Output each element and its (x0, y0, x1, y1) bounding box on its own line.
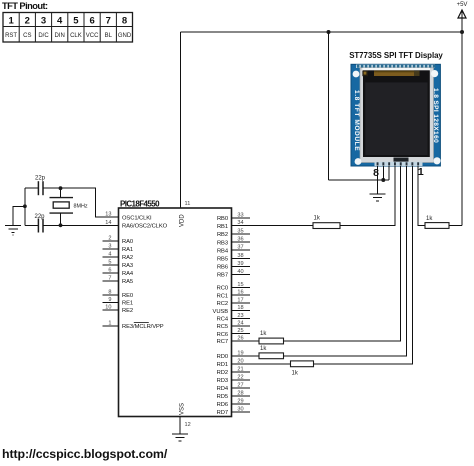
TFT module U2 PCB (351, 64, 441, 166)
pin 20 RD1 (217, 358, 250, 368)
svg-text:6: 6 (108, 267, 111, 273)
svg-text:2: 2 (25, 16, 30, 27)
svg-text:RB2: RB2 (217, 232, 228, 238)
wire TFT supply drop (328, 32, 330, 180)
pin 8 RE0 (103, 289, 134, 299)
svg-text:RD7: RD7 (217, 410, 228, 416)
svg-text:CS: CS (23, 33, 31, 39)
pin 19 RD0 (217, 350, 250, 360)
capacitor C1 22p (25, 176, 61, 196)
svg-text:22: 22 (237, 374, 243, 380)
wire TFT pin 8 to ground (377, 166, 379, 194)
svg-text:2: 2 (108, 235, 111, 241)
svg-text:RD0: RD0 (217, 354, 228, 360)
svg-text:RA4: RA4 (122, 271, 134, 277)
pin 33 RB0 (217, 213, 250, 223)
ground symbol TFT (369, 194, 385, 201)
svg-text:PIC18F4550: PIC18F4550 (120, 199, 160, 208)
svg-text:VCC: VCC (86, 33, 99, 39)
pin 35 RB2 (217, 229, 250, 239)
svg-text:38: 38 (237, 253, 243, 259)
svg-text:RA2: RA2 (122, 255, 133, 261)
svg-text:8: 8 (108, 289, 111, 295)
pin 11 VDD label (180, 201, 191, 227)
svg-text:D/C: D/C (38, 33, 49, 39)
svg-text:35: 35 (237, 229, 243, 235)
svg-text:RA6/OSC2/CLKO: RA6/OSC2/CLKO (122, 224, 168, 230)
svg-text:TFT Pinout:: TFT Pinout: (2, 1, 48, 11)
wire RB1 to R1 (248, 225, 313, 227)
pin 40 RB7 (217, 269, 250, 279)
svg-text:14: 14 (105, 220, 111, 226)
svg-text:22p: 22p (35, 176, 46, 182)
pin 4 RA2 (103, 251, 134, 261)
pin 12 VSS (180, 403, 191, 434)
svg-text:39: 39 (237, 261, 243, 267)
svg-text:27: 27 (237, 382, 243, 388)
svg-text:1: 1 (418, 166, 424, 178)
svg-text:26: 26 (237, 336, 243, 342)
svg-text:RC5: RC5 (217, 324, 228, 330)
wire R2 to TFT pin 4 (284, 166, 401, 341)
wire RD1 to R4 (248, 363, 291, 365)
svg-text:RC6: RC6 (217, 332, 228, 338)
PIC18F4550 title (120, 199, 160, 208)
svg-text:34: 34 (237, 220, 243, 226)
wire TFT pin 1 to R5 (418, 166, 425, 226)
svg-text:21: 21 (237, 366, 243, 372)
pin 13 OSC1/CLKI (103, 212, 153, 222)
svg-text:1.8 SPI 128X160: 1.8 SPI 128X160 (432, 88, 439, 143)
svg-text:1k: 1k (292, 371, 299, 377)
TFT pinout table (3, 13, 133, 43)
svg-text:16: 16 (237, 290, 243, 296)
wire R1 to TFT pin 5 (340, 166, 395, 226)
svg-text:RB1: RB1 (217, 224, 228, 230)
capacitor C2 22p (25, 214, 61, 233)
svg-text:4: 4 (108, 251, 111, 257)
svg-text:1k: 1k (260, 346, 267, 352)
svg-text:20: 20 (237, 358, 243, 364)
wire VDD drop to pin 11 (180, 32, 182, 208)
pin 28 RD5 (217, 390, 250, 400)
ground symbol at VSS (172, 434, 188, 441)
pin 7 RA5 (103, 275, 134, 285)
svg-text:11: 11 (185, 201, 191, 207)
svg-text:RE1: RE1 (122, 301, 133, 307)
pin 5 RA3 (103, 259, 134, 269)
svg-text:5: 5 (108, 259, 111, 265)
svg-text:8: 8 (373, 167, 379, 179)
TFT Pinout title (2, 1, 48, 11)
svg-text:5: 5 (73, 16, 79, 27)
svg-text:VUSB: VUSB (213, 309, 229, 315)
svg-text:RB6: RB6 (217, 265, 228, 271)
TFT display heading (349, 51, 443, 60)
svg-text:GND: GND (118, 33, 132, 39)
crystal X1 8MHz (50, 188, 88, 225)
pin 27 RD4 (217, 382, 250, 392)
svg-text:RC2: RC2 (217, 301, 228, 307)
svg-text:VDD: VDD (180, 214, 186, 227)
svg-text:RST: RST (5, 33, 17, 39)
svg-text:1: 1 (8, 16, 14, 27)
pin 30 RD7 (217, 406, 250, 416)
wire +5V top rail (181, 31, 463, 33)
svg-text:18: 18 (237, 305, 243, 311)
pin 6 RA4 (103, 267, 134, 277)
svg-text:RE0: RE0 (122, 293, 133, 299)
wire TFT pin 6 drop (388, 166, 390, 180)
resistor R4 1k (291, 361, 314, 377)
svg-text:OSC1/CLKI: OSC1/CLKI (122, 215, 152, 221)
svg-text:RA5: RA5 (122, 279, 133, 285)
svg-text:37: 37 (237, 245, 243, 251)
svg-text:6: 6 (89, 16, 94, 27)
svg-text:3: 3 (108, 243, 111, 249)
svg-text:RD1: RD1 (217, 362, 228, 368)
svg-text:17: 17 (237, 297, 243, 303)
wire RD0 to R3 (248, 355, 259, 357)
svg-text:1k: 1k (314, 216, 321, 222)
svg-text:RD5: RD5 (217, 394, 228, 400)
svg-text:9: 9 (108, 297, 111, 303)
wire R5 to +5V rail (449, 225, 462, 227)
svg-text:VSS: VSS (180, 403, 186, 415)
pin 25 RC6 (217, 328, 250, 338)
svg-text:+5V: +5V (457, 2, 468, 8)
resistor R3 1k (259, 346, 284, 359)
wire +5V right drop to R5 (461, 32, 463, 226)
pin 16 RC1 (217, 290, 250, 300)
svg-text:7: 7 (106, 16, 111, 27)
wire OSC2 to pin 14 (61, 224, 103, 226)
svg-text:DIN: DIN (55, 33, 65, 39)
svg-text:RE3/MCLR/VPP: RE3/MCLR/VPP (122, 324, 164, 330)
+5V power symbol (457, 2, 468, 32)
svg-text:12: 12 (185, 422, 191, 428)
pin 23 RC4 (217, 313, 250, 323)
pin 38 RB5 (217, 253, 250, 263)
svg-text:CLK: CLK (70, 33, 82, 39)
svg-text:RD2: RD2 (217, 370, 228, 376)
svg-text:8MHz: 8MHz (74, 204, 88, 210)
svg-text:40: 40 (237, 269, 243, 275)
wire RC7 to R2 (248, 340, 259, 342)
pin 10 RE2 (103, 304, 134, 314)
resistor R2 1k (259, 331, 284, 344)
pin 2 RA0 (103, 235, 134, 245)
node cap rail junction (23, 204, 27, 208)
wire R3 to TFT pin 3 (284, 166, 407, 356)
svg-text:http://ccspicc.blogspot.com/: http://ccspicc.blogspot.com/ (2, 447, 168, 461)
IC U1 PIC18F4550 body (119, 208, 232, 417)
node junction top rail / TFT feed (327, 30, 331, 34)
wire TFT supply horizontal to pins 7,6 (329, 179, 390, 181)
pin 22 RD3 (217, 374, 250, 384)
pin 17 RC2 (217, 297, 250, 307)
svg-text:19: 19 (237, 350, 243, 356)
resistor R1 1k (313, 216, 340, 229)
pin 18 VUSB (213, 305, 250, 315)
TFT pin 1 label (418, 166, 424, 178)
svg-text:7: 7 (108, 275, 111, 281)
svg-text:25: 25 (237, 328, 243, 334)
wire capacitor common rail (24, 188, 26, 225)
svg-text:23: 23 (237, 313, 243, 319)
pin 24 RC5 (217, 321, 250, 331)
svg-text:RC4: RC4 (217, 317, 229, 323)
pin 34 RB1 (217, 220, 250, 230)
TFT pin 8 label (373, 167, 379, 179)
svg-text:RA3: RA3 (122, 263, 133, 269)
svg-text:RA0: RA0 (122, 239, 133, 245)
pin 39 RB6 (217, 261, 250, 271)
svg-text:1k: 1k (260, 331, 267, 337)
svg-text:33: 33 (237, 213, 243, 219)
svg-text:RC7: RC7 (217, 339, 228, 345)
svg-text:1: 1 (108, 320, 111, 326)
svg-text:RE2: RE2 (122, 308, 133, 314)
pin 15 RC0 (217, 282, 250, 292)
resistor R5 1k (425, 216, 449, 228)
wire TFT pin 7 drop (382, 166, 384, 180)
pin 1 RE3/MCLR/VPP (103, 320, 164, 330)
svg-text:24: 24 (237, 321, 243, 327)
svg-text:RB4: RB4 (217, 248, 229, 254)
svg-text:BL: BL (105, 33, 113, 39)
pin 14 RA6/OSC2/CLKO (103, 220, 168, 230)
svg-text:RD4: RD4 (217, 386, 229, 392)
svg-text:30: 30 (237, 406, 243, 412)
node junction at TFT pin 7 (381, 178, 385, 182)
svg-text:4: 4 (57, 16, 63, 27)
wire R4 to TFT pin 2 (314, 166, 413, 364)
URL footer (2, 447, 168, 461)
svg-text:8: 8 (122, 16, 127, 27)
svg-text:RC1: RC1 (217, 293, 228, 299)
node crystal top junction (59, 186, 63, 190)
svg-text:RA1: RA1 (122, 247, 133, 253)
svg-text:RB7: RB7 (217, 273, 228, 279)
svg-text:RB5: RB5 (217, 257, 228, 263)
pin 3 RA1 (103, 243, 134, 253)
node crystal bottom junction (59, 223, 63, 227)
pin 37 RB4 (217, 245, 250, 255)
svg-text:ST7735S SPI TFT Display: ST7735S SPI TFT Display (349, 51, 443, 60)
wire OSC1 to pin 13 (61, 188, 103, 217)
svg-text:36: 36 (237, 237, 243, 243)
svg-text:RD3: RD3 (217, 378, 228, 384)
node junction top rail right (460, 30, 464, 34)
svg-text:13: 13 (105, 212, 111, 218)
pin 29 RD6 (217, 398, 250, 408)
svg-text:RB0: RB0 (217, 216, 228, 222)
svg-text:RB3: RB3 (217, 240, 228, 246)
pin 21 RD2 (217, 366, 250, 376)
svg-text:3: 3 (41, 16, 46, 27)
svg-text:15: 15 (237, 282, 243, 288)
pin 26 RC7 (217, 336, 250, 346)
svg-text:1.8 TFT MODULE: 1.8 TFT MODULE (353, 90, 360, 151)
wire to crystal ground (13, 206, 25, 225)
svg-text:29: 29 (237, 398, 243, 404)
svg-text:1k: 1k (426, 216, 433, 222)
ground symbol crystal (5, 226, 21, 236)
svg-text:10: 10 (105, 304, 111, 310)
pin 36 RB3 (217, 237, 250, 247)
svg-text:RD6: RD6 (217, 402, 228, 408)
svg-text:RC0: RC0 (217, 286, 228, 292)
svg-text:28: 28 (237, 390, 243, 396)
pin 9 RE1 (103, 297, 134, 307)
